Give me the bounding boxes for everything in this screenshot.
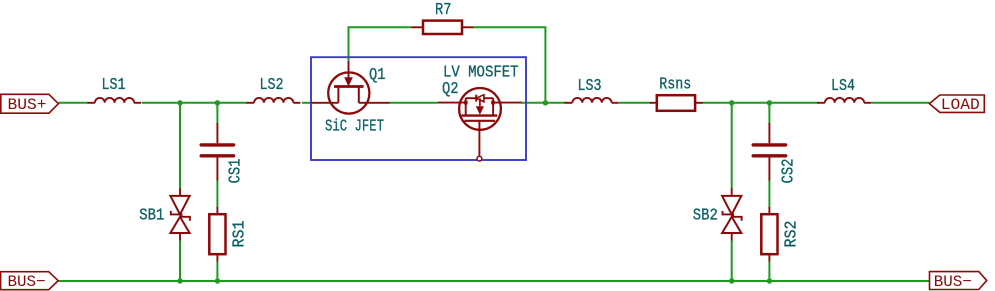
svg-text:Q2: Q2	[442, 79, 459, 98]
wire left branch B top (to CS1)	[216, 103, 218, 124]
svg-text:LS3: LS3	[578, 76, 602, 95]
wire left branch A bottom (SB1 to BUS-)	[179, 240, 181, 281]
capacitor CS1	[201, 123, 233, 181]
wire CS1 to RS1	[216, 180, 218, 207]
junction Rsns/SB2 branch	[729, 100, 734, 105]
resistor RS2	[761, 207, 777, 262]
wire CS2 to RS2	[768, 180, 770, 207]
junction output node at R7 drop	[543, 100, 548, 105]
svg-text:SB1: SB1	[139, 205, 164, 224]
resistor R7	[412, 21, 474, 34]
wire BUS+ to LS1	[58, 102, 87, 104]
wire Q1 source to Q2 drain	[389, 102, 438, 104]
hierarchical label BUS- (left)	[1, 272, 59, 291]
junction LS1/SB-branch B	[215, 100, 220, 105]
wire R7 right branch down to output node	[474, 27, 546, 103]
svg-text:LS2: LS2	[260, 75, 284, 94]
svg-text:CS2: CS2	[779, 159, 798, 184]
svg-text:LS1: LS1	[102, 75, 126, 94]
wire LS2 to Q1 drain	[302, 102, 312, 104]
svg-text:SB2: SB2	[693, 205, 718, 224]
TVS diode SB2	[722, 188, 742, 240]
wire LS3 to Rsns	[619, 102, 651, 104]
inductor LS3	[565, 98, 619, 103]
svg-text:R7: R7	[435, 0, 452, 19]
junction LS1/CS-branch	[177, 100, 182, 105]
hierarchical label LOAD	[929, 95, 984, 114]
junction BUS- rail right B	[767, 278, 772, 283]
svg-text:SiC JFET: SiC JFET	[325, 117, 384, 136]
svg-text:BUS+: BUS+	[8, 96, 47, 114]
wire RS2 to BUS- rail	[768, 261, 770, 281]
wire Q2 source to LS3 (node out)	[521, 102, 566, 104]
wire BUS- bottom rail	[58, 280, 929, 282]
inductor LS2	[246, 98, 300, 103]
svg-text:BUS−: BUS−	[934, 273, 972, 291]
svg-text:LS4: LS4	[831, 76, 855, 95]
resistor Rsns	[650, 95, 703, 111]
svg-text:BUS−: BUS−	[8, 273, 46, 291]
transistor Q1 (SiC JFET)	[312, 61, 390, 114]
junction BUS- rail left A	[177, 278, 182, 283]
junction BUS- rail right A	[729, 278, 734, 283]
transistor Q2 (LV MOSFET)	[438, 88, 522, 161]
wire right branch B top (to CS2)	[768, 103, 770, 124]
wire LS4 to LOAD	[872, 102, 930, 104]
TVS diode SB1	[170, 188, 190, 240]
wire RS1 to BUS- rail	[216, 261, 218, 281]
junction BUS- rail left B	[215, 278, 220, 283]
svg-text:RS1: RS1	[230, 221, 249, 248]
graphic box around JFET/MOSFET stage	[311, 57, 526, 160]
wire right branch A top (to SB2)	[731, 103, 733, 189]
capacitor CS2	[753, 123, 785, 181]
svg-text:CS1: CS1	[226, 159, 245, 184]
hierarchical label BUS- (right)	[930, 272, 987, 291]
inductor LS4	[817, 98, 871, 103]
svg-text:Rsns: Rsns	[659, 74, 691, 93]
inductor LS1	[87, 98, 141, 103]
svg-text:RS2: RS2	[782, 221, 801, 248]
junction Rsns/CS2 branch	[767, 100, 772, 105]
hierarchical label BUS+	[1, 94, 59, 114]
svg-text:LOAD: LOAD	[941, 96, 980, 114]
wire left branch A top (to SB1)	[179, 103, 181, 189]
wire R7 left branch down to Q1 gate	[349, 27, 412, 61]
resistor RS1	[209, 207, 225, 262]
wire right branch A bottom (SB2 to BUS-)	[731, 240, 733, 281]
wire Rsns to LS4 (node sense)	[702, 102, 818, 104]
svg-text:Q1: Q1	[369, 65, 386, 84]
wire LS1 to LS2 (node net1)	[142, 102, 247, 104]
